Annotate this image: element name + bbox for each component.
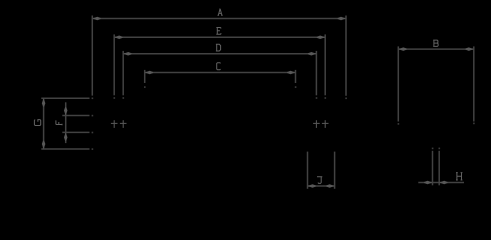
dot below B left extension — [398, 123, 400, 125]
extension line A right — [345, 16, 347, 96]
extension line B left — [397, 46, 399, 121]
dimension line A — [92, 18, 346, 20]
arrowhead A right — [338, 17, 346, 21]
extension line J right — [334, 152, 336, 189]
dimension line C — [145, 72, 296, 74]
extension line G bottom — [41, 148, 89, 150]
dot below C right extension — [295, 86, 297, 88]
extension line C right — [295, 70, 297, 83]
corner dot bottom-left — [92, 148, 94, 150]
extension line B right — [473, 46, 475, 121]
extension line E right — [324, 34, 326, 95]
label D — [216, 44, 221, 51]
extension line D right — [315, 51, 317, 95]
label J — [317, 177, 322, 184]
dot above H left extension — [432, 148, 434, 150]
arrowhead E left — [114, 36, 122, 40]
label E — [216, 28, 221, 35]
hole cross left inner — [120, 122, 127, 124]
label A — [218, 9, 223, 16]
dot below D right extension — [316, 97, 318, 99]
label C — [217, 63, 221, 70]
extension line G top — [41, 97, 89, 99]
dimension line D — [123, 53, 316, 55]
extension line J left — [307, 152, 309, 189]
arrowhead A left — [92, 17, 100, 21]
dot below E left extension — [114, 97, 116, 99]
hole cross right outer — [322, 122, 329, 124]
hole cross right inner — [313, 122, 320, 124]
arrowhead G top — [42, 98, 46, 106]
arrowhead H right outside — [439, 181, 447, 185]
arrowhead H left outside — [424, 181, 432, 185]
arrowhead D right — [308, 52, 316, 56]
label G rotated — [34, 120, 40, 126]
edge dot left F top — [92, 115, 94, 117]
dot above H right extension — [439, 148, 441, 150]
corner dot top-left — [92, 98, 94, 100]
label H — [456, 173, 462, 180]
arrowhead B left — [398, 47, 406, 51]
extension line D left — [122, 51, 124, 95]
extension line F top — [62, 115, 89, 117]
arrowhead J left — [308, 184, 316, 188]
dot below D left extension — [123, 97, 125, 99]
extension line H left — [432, 151, 434, 186]
arrowhead G bottom — [42, 141, 46, 149]
arrowhead C left — [145, 71, 153, 75]
arrowhead F bottom outside — [64, 132, 67, 140]
label B — [433, 40, 438, 46]
arrowhead D left — [123, 52, 131, 56]
extension line C left — [144, 70, 146, 83]
extension line E left — [113, 34, 115, 95]
corner dot top-right — [345, 98, 347, 100]
arrowhead E right — [317, 36, 325, 40]
arrowhead J right — [326, 184, 334, 188]
dimension line E — [114, 36, 325, 38]
extension line H right — [438, 151, 440, 186]
arrowhead F top outside — [64, 107, 67, 115]
dimension line J — [307, 185, 334, 187]
dimension line F — [65, 102, 67, 143]
arrowhead C right — [287, 71, 295, 75]
extension line F bottom — [62, 131, 89, 133]
edge dot left F bottom — [92, 132, 94, 134]
label F rotated — [56, 120, 62, 125]
dot below C left extension — [144, 86, 146, 88]
dot below B right extension — [473, 123, 475, 125]
dimension line B — [398, 48, 474, 50]
hole cross left outer — [111, 122, 118, 124]
extension line A left — [91, 16, 93, 96]
dot below E right extension — [325, 97, 327, 99]
dimension line G — [43, 98, 45, 149]
dimension line H — [418, 182, 464, 184]
arrowhead B right — [465, 47, 473, 51]
